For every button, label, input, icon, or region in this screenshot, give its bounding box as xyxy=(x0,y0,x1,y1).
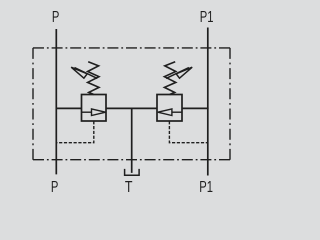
V2 spring xyxy=(164,62,175,95)
V1 spring xyxy=(88,62,99,95)
wire: V1 outlet to V2 outlet (T gallery) xyxy=(106,107,158,109)
wire: P1 port through-line xyxy=(207,28,209,176)
wire: P port through-line xyxy=(55,29,57,174)
V1 flow-path arrow (poppet) xyxy=(82,109,106,116)
svg-text:T: T xyxy=(125,178,133,196)
V2 flow-path arrow (poppet) xyxy=(158,109,182,116)
pilot line V1 (dashed, to P) xyxy=(56,121,94,143)
relief valve V1 body xyxy=(82,95,107,122)
tank symbol (T) xyxy=(125,169,140,175)
wire: T drain line (node T junction) xyxy=(131,108,133,172)
relief valve V2 body xyxy=(157,95,182,122)
svg-text:P1: P1 xyxy=(199,177,213,196)
svg-text:P: P xyxy=(51,177,58,196)
enclosure boundary (valve body, dash-dot) xyxy=(33,48,230,160)
pilot line V2 (dashed, to P1) xyxy=(169,121,207,143)
svg-text:P: P xyxy=(52,7,59,26)
V1 adjustment arrow xyxy=(71,67,97,78)
svg-text:P1: P1 xyxy=(200,7,214,26)
V2 adjustment arrow xyxy=(166,67,192,78)
wire: P line to valve V1 inlet xyxy=(56,107,83,109)
wire: V2 inlet to P1 line xyxy=(182,107,209,109)
